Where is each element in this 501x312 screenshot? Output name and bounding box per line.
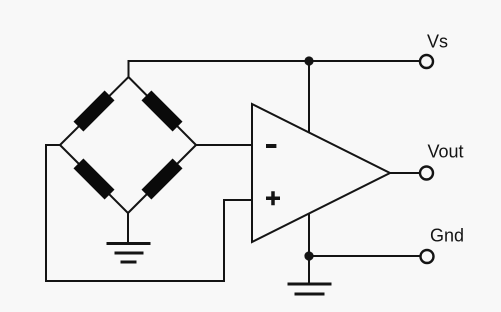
terminal Vs [420, 55, 433, 68]
wire bridge left node to bottom rail and op-amp + input [46, 145, 252, 281]
wire bridge right node to op-amp - input [196, 144, 252, 146]
terminal Vout [420, 167, 433, 180]
wire bridge bottom-right side [128, 145, 196, 213]
ground (op-amp) [288, 284, 332, 294]
wire op-amp bottom to ground [308, 214, 310, 284]
terminal Gnd [421, 250, 434, 263]
wire op-amp power from Vs rail [308, 61, 310, 132]
resistor R3 (bridge lower-left) [73, 158, 114, 199]
wire top rail (Vs rail) [129, 61, 420, 77]
wire junction to Gnd terminal [309, 255, 420, 257]
svg-text:Gnd: Gnd [430, 226, 464, 246]
pin - (inverting input mark) [266, 144, 276, 148]
wire bridge top-right side [129, 77, 197, 145]
node junction on Vs rail [304, 56, 313, 65]
wire bridge bottom node to ground [127, 213, 129, 243]
resistor R1 (bridge upper-left) [73, 90, 114, 131]
node junction at op-amp ground [304, 251, 313, 260]
wire bridge bottom-left side [60, 145, 128, 213]
wire bridge top-left side [60, 77, 129, 145]
op-amp U1 [252, 104, 390, 242]
pin + (non-inverting input mark) [266, 191, 280, 205]
wire output to Vout terminal [390, 172, 420, 174]
resistor R4 (bridge lower-right) [141, 158, 182, 199]
resistor R2 (bridge upper-right) [141, 90, 182, 131]
ground (bridge) [107, 244, 151, 263]
svg-text:Vs: Vs [427, 32, 448, 52]
svg-text:Vout: Vout [428, 142, 464, 162]
